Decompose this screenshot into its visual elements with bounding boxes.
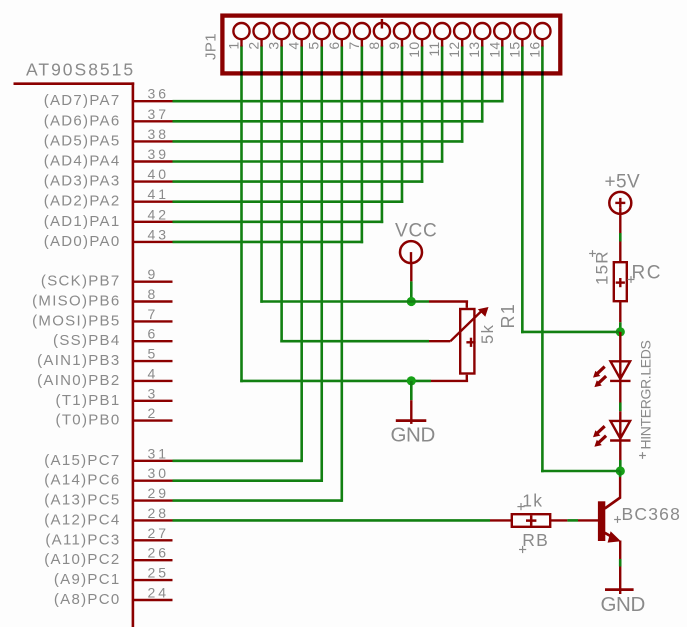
wire emitter to GND [619,559,622,567]
IC U1 pin 5 (AIN1)PB3 stub [134,360,173,362]
svg-text:15: 15 [506,42,522,58]
junction VCC node [407,297,416,306]
svg-text:(MOSI)PB5: (MOSI)PB5 [32,312,120,329]
IC U1 pin 3 (T1)PB1 stub [134,400,173,402]
svg-text:13: 13 [466,42,482,58]
R1 top terminal [429,302,468,308]
IC U1 pin 7 (MOSI)PB5 stub [134,320,173,322]
IC U1 pin number 9 [148,266,159,282]
svg-text:+5V: +5V [605,171,641,192]
svg-text:9: 9 [148,266,159,282]
wire (AD6)PA6 vertical to JP1 pin 13 [481,46,484,123]
Q1 origin cross [614,516,621,523]
JP1 pin number 3 [266,42,282,50]
ground symbol GND2 bar [605,588,634,591]
wire (AD7)PA7 horizontal from IC pin 36 [173,100,504,103]
IC U1 pin number 5 [148,346,159,362]
RC name origin cross [628,276,635,283]
LEDs label HINTERGR.LEDS [638,340,654,449]
IC U1 pin number 7 [148,306,159,322]
VCC label [395,220,438,241]
svg-text:37: 37 [148,106,170,122]
IC U1 pin number 41 [148,186,170,202]
Q1 emitter stub [619,541,621,560]
svg-text:RB: RB [522,530,549,550]
RC name label [632,263,662,284]
+5V supply circle [609,192,631,214]
IC U1 pin 36 (AD7)PA7 stub [134,100,173,102]
svg-text:30: 30 [148,465,170,481]
JP1 pin number 5 [306,42,322,50]
IC U1 pin name (A13)PC5 [44,492,120,509]
LED D1 symbol [593,361,631,387]
JP1 pin 10 stub [421,39,423,47]
IC U1 pin 8 (MISO)PB6 stub [134,300,173,302]
IC U1 pin number 4 [148,365,159,381]
JP1 pin 5 stub [321,39,323,47]
svg-text:1k: 1k [522,491,543,511]
svg-text:GND: GND [601,593,645,616]
svg-text:(SCK)PB7: (SCK)PB7 [41,273,121,290]
wire PC4 net to RB [173,519,491,522]
svg-text:(T0)PB0: (T0)PB0 [56,412,121,429]
svg-text:2: 2 [246,42,262,50]
svg-text:26: 26 [148,545,170,561]
IC U1 pin name (A12)PC4 [44,511,120,528]
IC U1 pin number 42 [148,206,170,222]
R1 wiper arrow [450,307,488,341]
IC U1 pin name (MOSI)PB5 [32,312,120,329]
svg-text:12: 12 [446,42,462,58]
JP1 pin circle 13 [474,23,490,39]
JP1 pin 6 stub [341,39,343,47]
svg-text:5k: 5k [479,324,497,344]
IC U1 pin number 2 [148,405,159,421]
wire (AD2)PA2 horizontal from IC pin 41 [173,200,404,203]
wire (AD1)PA1 vertical to JP1 pin 8 [381,46,384,224]
IC U1 pin number 40 [148,166,170,182]
wire JP1 pin1 to R1 bottom [240,380,431,383]
connector JP1 body [222,16,560,74]
IC U1 pin 37 (AD6)PA6 stub [134,120,173,122]
JP1 pin circle 2 [253,23,269,39]
Q1 collector [605,477,621,509]
IC U1 pin number 30 [148,465,170,481]
svg-text:28: 28 [148,505,170,521]
IC U1 pin 4 (AIN0)PB2 stub [134,380,173,382]
IC U1 pin number 26 [148,545,170,561]
junction RC-LED node [616,327,625,336]
svg-text:R1: R1 [498,303,518,328]
JP1 pin circle 1 [233,23,249,39]
JP1 pin number 9 [386,42,402,50]
wire +5V to RC [619,233,622,242]
wire JP1 pin16 to collector node [541,470,620,473]
Q1 base stub [578,519,598,521]
resistor R1 body [460,309,474,374]
IC U1 pin name (AD1)PA1 [44,213,121,230]
IC U1 pin 9 (SCK)PB7 stub [134,281,173,283]
IC U1 pin name (AD6)PA6 [44,112,121,129]
wire (AD0)PA0 horizontal from IC pin 43 [173,241,364,244]
IC U1 pin name (T0)PB0 [56,412,121,429]
IC U1 pin name (AD3)PA3 [44,173,121,190]
connector JP1 origin tick at pin 8 [381,19,383,29]
wire JP1 pin15 to LED node [521,331,620,334]
IC U1 pin number 38 [148,126,170,142]
IC U1 pin name (SS)PB4 [53,332,120,349]
IC U1 pin 31 (A15)PC7 stub [134,460,173,462]
IC U1 pin 27 (A11)PC3 stub [134,539,173,541]
wire (AD4)PA4 horizontal from IC pin 39 [173,160,444,163]
svg-text:2: 2 [148,405,159,421]
svg-text:(AD2)PA2: (AD2)PA2 [44,193,121,210]
RB name label [522,530,549,550]
LED D1 top stub [619,332,621,361]
JP1 pin 1 stub [240,39,242,47]
wire (AD3)PA3 horizontal from IC pin 40 [173,180,424,183]
IC U1 pin name (A10)PC2 [44,551,120,568]
svg-text:39: 39 [148,146,170,162]
RC value label 15R [593,250,612,285]
IC U1 pin number 28 [148,505,170,521]
svg-text:RC: RC [632,263,662,284]
JP1 pin circle 7 [354,23,370,39]
JP1 pin number 15 [506,42,522,58]
svg-text:1: 1 [226,42,242,50]
IC U1 pin number 27 [148,525,170,541]
ground symbol GND1 bar [396,419,427,422]
svg-text:16: 16 [526,42,542,58]
JP1 pin 14 stub [501,39,503,47]
IC U1 pin 25 (A9)PC1 stub [134,579,173,581]
RB value label 1k [522,491,543,511]
svg-text:(AD4)PA4: (AD4)PA4 [44,153,121,170]
svg-text:3: 3 [266,42,282,50]
R1 bottom terminal [431,375,468,381]
JP1 pin 13 stub [481,39,483,47]
JP1 pin number 16 [526,42,542,58]
svg-text:43: 43 [148,226,170,242]
IC U1 pin number 29 [148,485,170,501]
resistor RC body [614,262,627,301]
IC U1 pin number 31 [148,445,170,461]
svg-text:(A13)PC5: (A13)PC5 [44,492,120,509]
svg-text:9: 9 [386,42,402,50]
svg-text:(AD6)PA6: (AD6)PA6 [44,112,121,129]
svg-text:11: 11 [426,42,442,57]
svg-text:38: 38 [148,126,170,142]
wire (AD2)PA2 vertical to JP1 pin 9 [401,46,404,204]
IC U1 pin 6 (SS)PB4 stub [134,340,173,342]
svg-text:6: 6 [148,326,159,342]
wire vertical from JP1 pin 15 [521,46,524,334]
IC U1 pin number 6 [148,326,159,342]
IC U1 pin 42 (AD1)PA1 stub [134,221,173,223]
svg-text:(A11)PC3: (A11)PC3 [45,531,120,548]
JP1 pin 11 stub [441,39,443,47]
svg-text:29: 29 [148,485,170,501]
IC U1 pin name (AIN1)PB3 [37,352,120,369]
JP1 pin circle 14 [494,23,510,39]
IC U1 pin name (AD0)PA0 [44,233,121,250]
svg-text:14: 14 [486,42,502,58]
IC U1 pin number 3 [148,385,159,401]
svg-text:(A12)PC4: (A12)PC4 [44,511,120,528]
wire JP1 pin2 to R1 top [260,300,429,303]
wire (AD5)PA5 vertical to JP1 pin 12 [461,46,464,143]
VCC supply circle [400,241,422,263]
svg-text:5: 5 [306,42,322,50]
IC U1 pin number 24 [148,585,170,601]
JP1 pin number 2 [246,42,262,50]
svg-text:AT90S8515: AT90S8515 [26,60,135,80]
JP1 pin 4 stub [300,39,302,47]
GND2 pin stub [619,567,621,595]
RC value origin cross [589,250,596,257]
JP1 pin number 4 [286,42,302,50]
IC U1 AT90S8515 name label [26,60,135,80]
svg-text:42: 42 [148,206,170,222]
svg-text:3: 3 [148,385,159,401]
junction collector node [616,466,625,475]
resistor RB body [512,514,550,527]
svg-text:(AD7)PA7: (AD7)PA7 [44,92,121,109]
IC U1 pin name (A8)PC0 [54,591,121,608]
JP1 pin circle 12 [454,23,470,39]
RB left stub [490,519,512,521]
JP1 pin 8 stub [381,39,383,47]
JP1 pin circle 11 [434,23,450,39]
LED D2 top stub [619,411,621,421]
IC U1 pin number 8 [148,286,159,302]
JP1 pin 2 stub [260,39,262,47]
RB right stub [550,519,568,521]
JP1 pin circle 5 [314,23,330,39]
IC U1 pin number 25 [148,565,170,581]
svg-text:4: 4 [286,42,302,50]
IC U1 pin name (A9)PC1 [54,571,121,588]
IC U1 pin number 37 [148,106,170,122]
transistor Q1 BC368 base bar [598,501,605,541]
Q1 name label BC368 [622,504,682,524]
svg-text:GND: GND [391,424,435,447]
wire VCC to node [410,281,413,301]
JP1 pin circle 9 [394,23,410,39]
svg-text:HINTERGR.LEDS: HINTERGR.LEDS [638,340,654,449]
connector JP1 name label [203,33,220,60]
RC top stub [619,242,621,263]
IC U1 pin 39 (AD4)PA4 stub [134,160,173,162]
svg-text:(MISO)PB6: (MISO)PB6 [32,293,120,310]
IC U1 pin 28 (A12)PC4 stub [134,519,173,521]
junction R1 bottom node [407,376,416,385]
IC U1 pin number 36 [148,86,170,102]
IC U1 box top edge [14,82,135,85]
+5V pin stub [619,214,621,233]
RB origin cross [526,515,536,525]
svg-text:(A8)PC0: (A8)PC0 [54,591,121,608]
Q1 emitter [605,531,621,542]
GND label [391,424,435,447]
svg-text:27: 27 [148,525,170,541]
wire (AD7)PA7 vertical to JP1 pin 14 [501,46,504,103]
JP1 pin circle 4 [294,23,310,39]
IC U1 pin name (AD5)PA5 [44,132,121,149]
JP1 pin number 13 [466,42,482,58]
svg-text:8: 8 [148,286,159,302]
IC U1 pin name (AIN0)PB2 [37,372,120,389]
IC U1 pin 2 (T0)PB0 stub [134,419,173,421]
svg-text:7: 7 [148,306,159,322]
svg-text:(A9)PC1: (A9)PC1 [54,571,121,588]
JP1 pin number 12 [446,42,462,58]
IC U1 pin 24 (A8)PC0 stub [134,599,173,601]
JP1 pin number 11 [426,42,442,57]
svg-text:40: 40 [148,166,170,182]
svg-text:(T1)PB1: (T1)PB1 [56,392,121,409]
svg-text:VCC: VCC [395,220,438,241]
LED D2 bottom stub [619,441,621,461]
IC U1 pin 41 (AD2)PA2 stub [134,200,173,202]
IC U1 pin name (AD4)PA4 [44,153,121,170]
IC U1 pin name (A14)PC6 [44,472,120,489]
JP1 pin 12 stub [461,39,463,47]
JP1 pin number 10 [406,42,422,58]
svg-text:15R: 15R [593,250,612,285]
R1 origin cross [466,338,475,347]
RC bottom stub [619,302,621,323]
svg-text:31: 31 [148,445,170,461]
R1 wiper wire [280,340,450,343]
IC U1 pin number 43 [148,226,170,242]
JP1 pin 16 stub [541,39,543,47]
svg-text:24: 24 [148,585,170,601]
svg-text:(A14)PC6: (A14)PC6 [44,472,120,489]
JP1 pin number 6 [326,42,342,50]
svg-text:JP1: JP1 [203,33,220,60]
RB name origin cross [519,546,526,553]
IC U1 pin name (A11)PC3 [45,531,120,548]
wire PC7 net to JP1 pin 4 [173,459,302,462]
svg-text:41: 41 [148,186,170,202]
IC U1 pin name (AD7)PA7 [44,92,121,109]
svg-text:(AD3)PA3: (AD3)PA3 [44,173,121,190]
svg-text:(A10)PC2: (A10)PC2 [44,551,120,568]
JP1 pin circle 3 [274,23,290,39]
IC U1 pin number 39 [148,146,170,162]
JP1 pin circle 10 [414,23,430,39]
LED D1 bottom stub [619,381,621,403]
JP1 pin circle 15 [514,23,530,39]
wire LED D1 to LED D2 [619,403,622,412]
svg-text:4: 4 [148,365,159,381]
JP1 pin 15 stub [521,39,523,47]
svg-text:25: 25 [148,565,170,581]
VCC pin stub [410,263,412,282]
svg-text:36: 36 [148,86,170,102]
R1 name label [498,303,518,328]
wire (AD1)PA1 horizontal from IC pin 42 [173,221,384,224]
JP1 pin 3 stub [280,39,282,47]
svg-text:(AD5)PA5: (AD5)PA5 [44,132,121,149]
svg-text:(A15)PC7: (A15)PC7 [44,452,120,469]
RB value origin cross [517,503,524,510]
+5V label [605,171,641,192]
svg-text:(AIN1)PB3: (AIN1)PB3 [37,352,120,369]
IC U1 pin name (SCK)PB7 [41,273,121,290]
LEDs label origin cross [639,452,646,459]
IC U1 pin 43 (AD0)PA0 stub [134,241,173,243]
IC U1 pin 29 (A13)PC5 stub [134,499,173,501]
svg-text:8: 8 [366,42,382,50]
wire collector node to Q1 [619,471,622,477]
IC U1 pin name (T1)PB1 [56,392,121,409]
IC U1 pin name (MISO)PB6 [32,293,120,310]
wire RC to LED node [619,322,622,332]
JP1 pin 9 stub [401,39,403,47]
wire vertical from JP1 pin 6 [340,46,343,502]
svg-text:10: 10 [406,42,422,58]
IC U1 pin 38 (AD5)PA5 stub [134,140,173,142]
wire PC5 net to JP1 pin 6 [173,499,342,502]
wire vertical from JP1 pin 3 [280,46,283,343]
wire vertical from JP1 pin 4 [300,46,303,463]
GND2 label [601,593,645,616]
IC U1 pin 40 (AD3)PA3 stub [134,180,173,182]
JP1 pin circle 16 [534,23,550,39]
RC origin cross [616,278,625,287]
svg-text:(AIN0)PB2: (AIN0)PB2 [37,372,120,389]
wire (AD4)PA4 vertical to JP1 pin 11 [441,46,444,163]
wire vertical from JP1 pin 1 [240,46,243,383]
wire PC6 net to JP1 pin 5 [173,479,322,482]
wire vertical from JP1 pin 16 [541,46,544,473]
JP1 pin number 14 [486,42,502,58]
IC U1 pin name (A15)PC7 [44,452,120,469]
wire (AD5)PA5 horizontal from IC pin 38 [173,140,464,143]
wire (AD3)PA3 vertical to JP1 pin 10 [421,46,424,183]
JP1 pin circle 6 [334,23,350,39]
wire node to GND [410,381,413,400]
JP1 pin circle 8 [374,23,390,39]
wire (AD6)PA6 horizontal from IC pin 37 [173,120,484,123]
IC U1 box right edge [132,82,135,627]
svg-text:6: 6 [326,42,342,50]
IC U1 pin 30 (A14)PC6 stub [134,480,173,482]
GND pin stub [410,400,412,424]
wire vertical from JP1 pin 5 [320,46,323,483]
svg-text:5: 5 [148,346,159,362]
svg-text:(SS)PB4: (SS)PB4 [53,332,120,349]
wire vertical from JP1 pin 2 [260,46,263,303]
IC U1 pin name (AD2)PA2 [44,193,121,210]
JP1 pin number 1 [226,42,242,50]
IC U1 pin 26 (A10)PC2 stub [134,559,173,561]
svg-text:(AD0)PA0: (AD0)PA0 [44,233,121,250]
R1 value label 5k [479,324,497,344]
svg-text:7: 7 [346,42,362,50]
wire RB to base [567,519,578,522]
wire (AD0)PA0 vertical to JP1 pin 7 [361,46,364,244]
JP1 pin 7 stub [361,39,363,47]
LED D2 symbol [593,421,631,447]
JP1 pin number 7 [346,42,362,50]
svg-text:BC368: BC368 [622,504,682,524]
JP1 pin number 8 [366,42,382,50]
svg-text:(AD1)PA1: (AD1)PA1 [44,213,121,230]
wire LED D2 to collector node [619,460,622,471]
